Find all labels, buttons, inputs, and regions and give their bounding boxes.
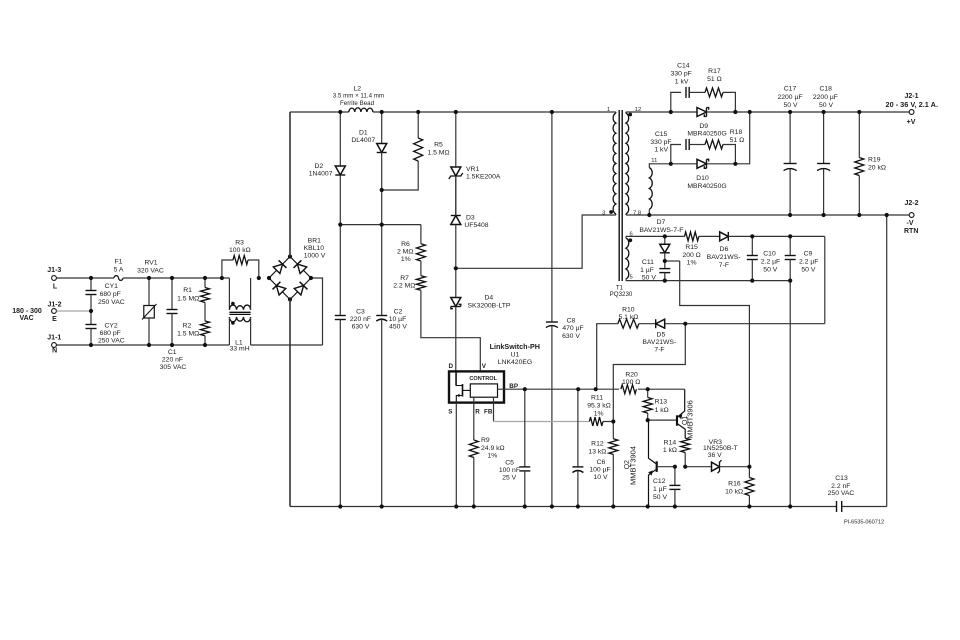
svg-text:3.5 mm × 11.4 mm: 3.5 mm × 11.4 mm xyxy=(333,93,384,100)
svg-text:250 VAC: 250 VAC xyxy=(98,338,125,345)
svg-text:6: 6 xyxy=(629,231,632,237)
svg-text:MBR40250G: MBR40250G xyxy=(687,131,726,138)
svg-text:R7: R7 xyxy=(400,275,409,282)
svg-text:33 mH: 33 mH xyxy=(230,346,250,353)
svg-text:50 V: 50 V xyxy=(653,494,667,501)
svg-text:R16: R16 xyxy=(728,480,741,487)
svg-text:50 V: 50 V xyxy=(819,102,833,109)
svg-text:1 kΩ: 1 kΩ xyxy=(663,447,677,454)
svg-text:1%: 1% xyxy=(401,256,411,263)
svg-text:S: S xyxy=(448,408,452,415)
svg-text:11: 11 xyxy=(651,158,657,164)
svg-text:FB: FB xyxy=(484,408,493,415)
svg-text:1%: 1% xyxy=(594,410,604,417)
svg-text:330 pF: 330 pF xyxy=(671,71,692,78)
svg-text:1 µF: 1 µF xyxy=(653,486,667,493)
svg-text:D1: D1 xyxy=(359,129,368,136)
svg-text:680 pF: 680 pF xyxy=(100,330,121,337)
svg-text:C12: C12 xyxy=(653,478,666,485)
svg-text:C8: C8 xyxy=(567,318,576,325)
svg-text:D2: D2 xyxy=(314,163,323,170)
svg-text:1 kV: 1 kV xyxy=(654,147,668,154)
svg-text:330 pF: 330 pF xyxy=(650,139,671,146)
svg-text:CY2: CY2 xyxy=(104,322,117,329)
svg-text:2.2 MΩ: 2.2 MΩ xyxy=(393,283,415,290)
svg-text:RTN: RTN xyxy=(904,228,918,235)
svg-text:50 V: 50 V xyxy=(763,267,777,274)
svg-text:C10: C10 xyxy=(763,251,776,258)
svg-text:470 µF: 470 µF xyxy=(562,325,583,332)
svg-text:1 µF: 1 µF xyxy=(640,267,654,274)
svg-text:RV1: RV1 xyxy=(144,260,157,267)
svg-text:50 V: 50 V xyxy=(642,275,656,282)
svg-text:LinkSwitch-PH: LinkSwitch-PH xyxy=(490,342,540,351)
svg-text:100 Ω: 100 Ω xyxy=(622,379,640,386)
svg-text:C13: C13 xyxy=(835,475,848,482)
svg-text:51 Ω: 51 Ω xyxy=(707,76,722,83)
svg-text:630 V: 630 V xyxy=(562,333,580,340)
svg-text:12: 12 xyxy=(635,107,641,113)
svg-text:450 V: 450 V xyxy=(389,324,407,331)
svg-text:180 - 300: 180 - 300 xyxy=(12,308,42,315)
svg-text:51 Ω: 51 Ω xyxy=(730,137,745,144)
svg-text:-V: -V xyxy=(907,220,914,227)
svg-text:KBL10: KBL10 xyxy=(304,245,325,252)
svg-text:2200 µF: 2200 µF xyxy=(813,94,838,101)
svg-text:D10: D10 xyxy=(696,175,709,182)
svg-text:24.9 kΩ: 24.9 kΩ xyxy=(481,445,505,452)
svg-text:D5: D5 xyxy=(657,332,666,339)
svg-text:R: R xyxy=(475,408,480,415)
svg-text:J2-2: J2-2 xyxy=(904,200,918,207)
svg-text:1.5 MΩ: 1.5 MΩ xyxy=(177,295,199,302)
svg-text:R14: R14 xyxy=(664,439,677,446)
svg-text:R5: R5 xyxy=(434,142,443,149)
svg-text:R2: R2 xyxy=(183,322,192,329)
svg-text:J2-1: J2-1 xyxy=(904,93,918,100)
svg-text:1%: 1% xyxy=(687,260,697,267)
svg-text:320 VAC: 320 VAC xyxy=(137,268,164,275)
svg-text:100 kΩ: 100 kΩ xyxy=(229,247,251,254)
svg-text:1N4007: 1N4007 xyxy=(309,171,333,178)
svg-text:D7: D7 xyxy=(657,219,666,226)
svg-text:C15: C15 xyxy=(655,131,668,138)
svg-text:1: 1 xyxy=(607,107,610,113)
svg-text:J1-2: J1-2 xyxy=(47,302,61,309)
svg-text:7-F: 7-F xyxy=(719,262,729,269)
svg-text:R19: R19 xyxy=(868,156,881,163)
svg-text:J1-1: J1-1 xyxy=(47,335,61,342)
svg-text:200 Ω: 200 Ω xyxy=(682,252,700,259)
svg-text:CY1: CY1 xyxy=(105,283,118,290)
svg-text:L: L xyxy=(53,283,58,290)
svg-text:DL4007: DL4007 xyxy=(351,137,375,144)
svg-text:+V: +V xyxy=(907,119,916,126)
svg-text:13 kΩ: 13 kΩ xyxy=(588,449,606,456)
svg-text:220 nF: 220 nF xyxy=(350,316,371,323)
svg-text:N: N xyxy=(52,347,57,354)
svg-text:C3: C3 xyxy=(356,308,365,315)
svg-text:UF5408: UF5408 xyxy=(464,222,488,229)
svg-text:MMBT3906: MMBT3906 xyxy=(688,400,695,439)
svg-text:10 µF: 10 µF xyxy=(389,316,407,323)
svg-text:R12: R12 xyxy=(591,441,604,448)
svg-text:7,8: 7,8 xyxy=(633,211,641,217)
svg-text:SK3200B-LTP: SK3200B-LTP xyxy=(468,302,511,309)
svg-text:Ferrite Bead: Ferrite Bead xyxy=(340,100,375,107)
svg-text:10 kΩ: 10 kΩ xyxy=(725,488,743,495)
svg-text:3: 3 xyxy=(602,211,605,217)
svg-text:5 A: 5 A xyxy=(114,267,124,274)
svg-text:250 VAC: 250 VAC xyxy=(828,490,855,497)
svg-text:5: 5 xyxy=(629,275,632,281)
svg-text:1 kΩ: 1 kΩ xyxy=(655,407,669,414)
svg-text:PI-6535-060712: PI-6535-060712 xyxy=(844,520,884,526)
svg-text:C1: C1 xyxy=(168,349,177,356)
svg-text:R1: R1 xyxy=(183,287,192,294)
svg-text:R11: R11 xyxy=(591,395,603,402)
svg-text:1.5KE200A: 1.5KE200A xyxy=(466,174,501,181)
svg-text:R10: R10 xyxy=(622,307,635,314)
svg-text:CONTROL: CONTROL xyxy=(469,376,497,382)
svg-text:J1-3: J1-3 xyxy=(47,267,61,274)
svg-text:R3: R3 xyxy=(235,240,244,247)
svg-text:L2: L2 xyxy=(354,85,362,92)
svg-text:25 V: 25 V xyxy=(502,475,516,482)
svg-text:VAC: VAC xyxy=(19,315,33,322)
svg-text:C5: C5 xyxy=(505,460,514,467)
svg-text:C9: C9 xyxy=(804,251,813,258)
svg-text:680 pF: 680 pF xyxy=(100,291,121,298)
svg-text:20 - 36 V, 2.1 A.: 20 - 36 V, 2.1 A. xyxy=(886,102,939,109)
svg-text:C2: C2 xyxy=(394,308,403,315)
svg-text:2.2 µF: 2.2 µF xyxy=(761,259,780,266)
svg-text:C18: C18 xyxy=(819,86,832,93)
svg-text:100 nF: 100 nF xyxy=(499,467,520,474)
svg-text:50 V: 50 V xyxy=(784,102,798,109)
svg-text:R6: R6 xyxy=(401,241,410,248)
svg-text:E: E xyxy=(52,316,57,323)
svg-text:VR1: VR1 xyxy=(466,166,479,173)
svg-text:D: D xyxy=(449,363,454,370)
svg-text:36 V: 36 V xyxy=(708,452,722,459)
svg-text:1.5 MΩ: 1.5 MΩ xyxy=(427,150,449,157)
svg-text:R9: R9 xyxy=(481,437,490,444)
svg-text:2200 µF: 2200 µF xyxy=(777,94,802,101)
svg-text:C14: C14 xyxy=(677,63,690,70)
svg-text:U1: U1 xyxy=(511,352,520,359)
svg-text:R15: R15 xyxy=(685,244,698,251)
svg-text:MMBT3904: MMBT3904 xyxy=(631,446,638,485)
svg-text:1000 V: 1000 V xyxy=(304,253,326,260)
svg-text:BP: BP xyxy=(509,383,518,390)
svg-text:10 V: 10 V xyxy=(594,474,608,481)
svg-text:F1: F1 xyxy=(115,259,123,266)
svg-text:1.5 MΩ: 1.5 MΩ xyxy=(177,330,199,337)
svg-text:BAV21WS-7-F: BAV21WS-7-F xyxy=(639,227,683,234)
svg-text:BAV21WS-: BAV21WS- xyxy=(642,339,676,346)
svg-text:C17: C17 xyxy=(784,86,797,93)
svg-text:BR1: BR1 xyxy=(308,238,321,245)
svg-text:D3: D3 xyxy=(466,215,475,222)
svg-text:100 µF: 100 µF xyxy=(589,467,610,474)
svg-text:305 VAC: 305 VAC xyxy=(160,364,187,371)
svg-text:D4: D4 xyxy=(485,295,494,302)
svg-text:R18: R18 xyxy=(730,129,743,136)
svg-text:LNK420EG: LNK420EG xyxy=(498,359,532,366)
svg-text:D6: D6 xyxy=(720,246,729,253)
svg-text:C11: C11 xyxy=(642,259,654,266)
svg-text:R13: R13 xyxy=(655,398,668,405)
svg-text:5.1 kΩ: 5.1 kΩ xyxy=(618,314,638,321)
svg-text:50 V: 50 V xyxy=(801,267,815,274)
svg-text:95.3 kΩ: 95.3 kΩ xyxy=(587,402,611,409)
svg-text:C6: C6 xyxy=(597,459,606,466)
svg-text:R17: R17 xyxy=(708,68,721,75)
svg-text:20 kΩ: 20 kΩ xyxy=(868,164,886,171)
svg-text:2 MΩ: 2 MΩ xyxy=(397,248,413,255)
svg-text:BAV21WS-: BAV21WS- xyxy=(707,254,741,261)
svg-text:MBR40250G: MBR40250G xyxy=(687,183,726,190)
svg-text:630 V: 630 V xyxy=(352,324,370,331)
svg-text:D9: D9 xyxy=(699,123,708,130)
svg-text:250 VAC: 250 VAC xyxy=(98,299,125,306)
svg-text:PQ3230: PQ3230 xyxy=(610,291,633,298)
svg-text:2.2 µF: 2.2 µF xyxy=(799,259,818,266)
svg-text:7-F: 7-F xyxy=(654,347,664,354)
svg-text:R20: R20 xyxy=(625,371,638,378)
svg-text:220 nF: 220 nF xyxy=(162,357,183,364)
svg-text:1%: 1% xyxy=(488,453,498,460)
svg-text:1 kV: 1 kV xyxy=(675,79,689,86)
svg-text:2.2 nF: 2.2 nF xyxy=(831,483,850,490)
